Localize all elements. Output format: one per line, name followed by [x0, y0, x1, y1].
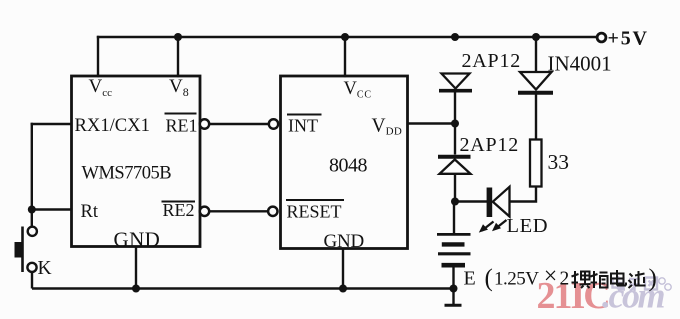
label Chinese ge glyph approx — [591, 271, 608, 288]
wire Vcc drop to 8048 — [344, 37, 346, 76]
svg-text:1.25V: 1.25V — [494, 269, 539, 290]
svg-text:GND: GND — [114, 228, 161, 252]
wire GND lead of 8048 — [342, 248, 344, 289]
node junction GND left — [132, 285, 140, 293]
IC U2 8048 box — [281, 76, 408, 249]
svg-text:LED: LED — [507, 215, 549, 237]
wire resistor to LED — [510, 187, 536, 202]
svg-text:IN4001: IN4001 — [548, 52, 612, 76]
svg-text:RX1/CX1: RX1/CX1 — [75, 115, 150, 136]
svg-text:2AP12: 2AP12 — [462, 50, 522, 72]
wire switch to bottom rail — [31, 272, 33, 289]
terminal +5V — [597, 33, 606, 42]
svg-text:WMS7705B: WMS7705B — [82, 164, 172, 184]
diode D1 2AP12 (anode up) — [439, 74, 472, 124]
svg-text:RE2: RE2 — [163, 200, 195, 220]
svg-text:V8: V8 — [169, 76, 189, 99]
svg-text:INT: INT — [288, 116, 318, 136]
wire junction to switch top contact — [31, 210, 33, 227]
LED D4 (pointing left) — [455, 187, 510, 233]
wire Rt pin — [32, 208, 71, 210]
node junction VDD — [451, 120, 459, 128]
watermark Chinese dianziwang approx — [613, 276, 672, 291]
wire bottom ground rail — [32, 287, 454, 289]
label Chinese nie glyph approx — [572, 271, 591, 288]
IC U1 WMS7705B box — [72, 76, 201, 247]
label Chinese chi glyph approx — [629, 271, 646, 288]
svg-text:): ) — [649, 265, 657, 292]
node junction Vs on rail — [174, 33, 182, 41]
wire RE1 to INT — [210, 123, 270, 125]
pin RE1 bubble — [200, 119, 209, 128]
wire top +5V rail — [98, 36, 597, 38]
pin RE2 bubble — [200, 207, 209, 216]
node junction IN4001 branch on rail — [532, 33, 540, 41]
svg-text:2: 2 — [560, 269, 570, 290]
battery E (two cells) — [437, 202, 471, 289]
svg-text:VCC: VCC — [344, 79, 372, 101]
wire Vs drop to WMS7705B — [177, 37, 179, 76]
pin RESET bubble — [268, 207, 277, 216]
svg-text:RE1: RE1 — [166, 116, 198, 136]
LED arrows — [479, 220, 507, 233]
node junction 8048 Vcc on rail — [341, 33, 349, 41]
wire GND lead of WMS7705B — [135, 247, 137, 289]
switch K pushbutton — [15, 227, 37, 273]
wire RE2 to RESET — [210, 210, 269, 212]
svg-text:E: E — [464, 268, 476, 290]
node junction battery minus on rail — [450, 285, 458, 293]
svg-text:+5V: +5V — [608, 28, 649, 50]
svg-text:K: K — [38, 258, 52, 279]
node junction diode branch on rail — [451, 33, 459, 41]
ground stub below battery — [445, 289, 462, 306]
wire Vcc drop to WMS7705B — [97, 37, 99, 76]
label Chinese dian glyph approx — [611, 270, 626, 286]
diode D3 IN4001 — [518, 37, 553, 140]
diode D2 2AP12 (anode down, cathode up) — [438, 124, 471, 202]
wire RX1/CX1 pin to left bus — [32, 123, 71, 125]
node junction Rt / switch — [28, 206, 36, 214]
svg-text:×: × — [544, 264, 558, 290]
pin INT bubble — [269, 119, 278, 128]
svg-text:33: 33 — [548, 150, 570, 174]
svg-text:Rt: Rt — [81, 202, 99, 222]
svg-text:VDD: VDD — [372, 116, 403, 138]
svg-text:RESET: RESET — [287, 202, 342, 222]
node junction GND right — [339, 285, 347, 293]
resistor R1 33 — [530, 140, 542, 187]
wire left vertical bus — [31, 124, 33, 210]
svg-text:(: ( — [485, 265, 493, 292]
node junction battery / LED — [451, 198, 459, 206]
svg-text:Vcc: Vcc — [89, 76, 113, 99]
svg-text:8048: 8048 — [329, 155, 368, 177]
svg-text:GND: GND — [324, 231, 365, 252]
wire VDD pin to diode node — [408, 122, 456, 124]
svg-text:2AP12: 2AP12 — [460, 134, 520, 156]
